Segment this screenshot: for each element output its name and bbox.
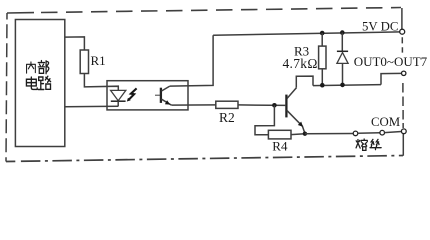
wire lower rail: [313, 85, 381, 86]
svg-text:R4: R4: [272, 138, 288, 153]
resistor R4: [268, 130, 291, 139]
junction base node: [272, 103, 277, 108]
dashed enclosure border right: [402, 8, 403, 156]
resistor R1: [80, 50, 88, 74]
junction bottom of R3: [320, 83, 325, 88]
transistor Q1: [285, 95, 287, 118]
fuse F1 (熔丝): [353, 131, 358, 136]
label 熔: [356, 139, 367, 150]
resistor R2: [216, 101, 238, 108]
svg-text:R1: R1: [91, 53, 106, 68]
optocoupler LED: [111, 90, 126, 100]
junction bottom of D1: [340, 83, 345, 88]
dashed enclosure border top: [7, 12, 34, 14]
wire 5V DC top rail: [213, 32, 400, 35]
label 内: [27, 62, 36, 73]
svg-text:5V DC: 5V DC: [362, 19, 398, 33]
terminal OUT0~OUT7: [402, 71, 406, 75]
svg-text:4.7kΩ: 4.7kΩ: [283, 56, 318, 71]
optocoupler U1 package: [107, 81, 188, 110]
wire fuse to COM terminal: [385, 132, 402, 133]
wire phototransistor collector to 5V rail: [170, 35, 213, 86]
label 丝: [370, 139, 381, 149]
label 电: [26, 77, 37, 89]
label 路: [38, 76, 50, 89]
svg-text:R2: R2: [219, 110, 235, 125]
wire rail to D1: [341, 33, 343, 52]
diode D1: [337, 50, 348, 52]
junction top of R3: [320, 31, 325, 36]
label 部: [38, 61, 49, 74]
wire base to R4: [255, 105, 274, 135]
optocoupler phototransistor: [160, 88, 162, 103]
wire LED cathode return to internal block: [65, 105, 118, 108]
dashed enclosure border left: [6, 13, 8, 20]
wire collector step to lower rail: [296, 76, 313, 87]
junction top of D1: [340, 30, 345, 35]
svg-text:OUT0~OUT7: OUT0~OUT7: [354, 54, 428, 69]
wire rail to R3: [321, 33, 323, 46]
terminal 5V DC: [400, 29, 405, 34]
dashed enclosure border bottom: [6, 160, 15, 162]
resistor R3: [319, 46, 326, 69]
wire phototransistor emitter to R2: [171, 104, 215, 106]
wire emitter node to fuse: [305, 133, 353, 135]
svg-text:COM: COM: [371, 115, 400, 129]
internal circuit block (内部电路): [15, 20, 64, 147]
wire internal box to R1: [65, 37, 85, 50]
wire R2 to transistor base: [238, 104, 285, 107]
wire R1 to LED anode: [84, 74, 118, 91]
light emission arrow: [128, 88, 136, 100]
wire R3 to lower rail: [321, 69, 323, 86]
wire R4 to emitter node: [291, 133, 305, 136]
wire to OUT terminal: [381, 73, 402, 84]
junction emitter node: [303, 132, 307, 136]
terminal COM: [401, 129, 406, 134]
